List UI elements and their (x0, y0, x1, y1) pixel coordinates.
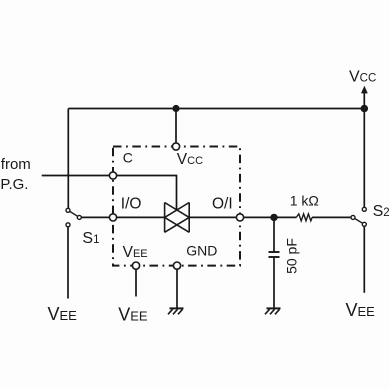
DUT dash-dot box (113, 147, 240, 266)
switch S2 contacts (355, 219, 363, 224)
pin I/O terminal circle (109, 214, 116, 221)
wire S1 bottom to VEE (67, 227, 69, 299)
node junction top-right VCC (361, 105, 369, 113)
pin O/I terminal circle (236, 214, 243, 221)
wire control from C terminal (113, 176, 177, 211)
wire VCC drop to box (175, 109, 177, 147)
ground under capacitor (265, 308, 281, 314)
wire VCC arrow shaft (363, 91, 365, 109)
node junction top-left of box (172, 105, 179, 112)
resistor R1 1 kOhm (296, 214, 312, 221)
pin GND terminal circle (173, 262, 180, 269)
power VCC arrow head (361, 86, 368, 94)
svg-text:GND: GND (186, 242, 217, 258)
svg-text:P.G.: P.G. (0, 176, 28, 193)
wire left vertical to S1 (67, 109, 69, 209)
svg-text:O/I: O/I (212, 195, 233, 212)
svg-text:C: C (123, 149, 133, 165)
wire GND terminal drop (176, 266, 178, 308)
wire right vertical to S2 (363, 109, 365, 208)
wire O/I to S2 (189, 216, 296, 218)
wire VEE terminal drop (135, 266, 137, 297)
svg-text:I/O: I/O (121, 195, 142, 212)
wire I/O to switch symbol (113, 216, 165, 218)
wire capacitor bottom (273, 258, 275, 308)
svg-text:50 pF: 50 pF (284, 238, 300, 274)
svg-text:from: from (1, 156, 31, 173)
wire capacitor top (273, 217, 275, 251)
pin VEE terminal circle (132, 262, 139, 269)
switch S1 contacts (70, 211, 78, 216)
op-amp U1 analog switch (transmission gate) (165, 203, 190, 233)
ground under GND pin (168, 308, 184, 314)
node junction capacitor tap (270, 214, 277, 221)
capacitor C1 50 pF plates (269, 251, 280, 253)
wire from P.G. input (42, 175, 113, 177)
svg-text:1 kΩ: 1 kΩ (290, 193, 319, 209)
pin VCC terminal circle (172, 143, 179, 150)
wire S1 to I/O (79, 216, 113, 218)
wire S2 bottom to VEE (363, 226, 365, 292)
pin C terminal circle (109, 172, 116, 179)
wire top rail (68, 108, 364, 110)
